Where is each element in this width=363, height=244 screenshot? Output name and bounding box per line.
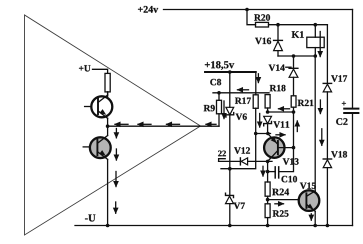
current arrow beside feed [257, 74, 259, 83]
wire to V11 bottom [256, 133, 271, 135]
resistor R9 [218, 93, 220, 101]
base current arrow [275, 203, 284, 205]
label V11 [273, 121, 289, 127]
wire lower tap [221, 108, 256, 168]
current arrow above [279, 108, 290, 110]
diode V12 [239, 158, 241, 165]
wire R18-R21 bottoms [268, 111, 294, 113]
right edge column with C2 [352, 10, 354, 109]
current arrow [321, 129, 323, 146]
label R17 [235, 98, 251, 104]
op-amp output wire to R9 [108, 125, 219, 127]
label R9 [204, 105, 215, 111]
current arrow [115, 123, 128, 125]
current arrow [115, 129, 117, 138]
diode V18 [323, 158, 331, 160]
label 22 [218, 151, 226, 157]
label C10 [282, 176, 298, 182]
current arrow [319, 100, 321, 114]
current arrow up beside R21 column [296, 121, 298, 132]
V15 emitter to rail [314, 211, 316, 225]
capacitor 22 [219, 159, 226, 162]
resistor R17 [253, 95, 258, 109]
wire [247, 10, 256, 25]
label V14 [269, 65, 285, 71]
+18,5v rail [205, 71, 256, 73]
resistor (collector load) [105, 73, 110, 92]
node R18 bottom [266, 110, 270, 114]
V14 label tie line [286, 66, 291, 68]
current arrow left of R24 [262, 166, 264, 176]
V15 base wire [268, 199, 307, 201]
transistor T2 (lower, filled) [90, 137, 111, 158]
diode V17 [323, 82, 331, 84]
label +18,5v [205, 61, 234, 70]
resistor R20 [256, 22, 269, 27]
capacitor C10 [274, 167, 276, 178]
bottom rail [75, 225, 353, 227]
node at R20 tap [245, 8, 249, 12]
label +U [79, 65, 91, 71]
transistor T1 (upper, open) [91, 96, 112, 117]
wire through V12 [219, 160, 272, 162]
current arrow [115, 149, 117, 160]
op-amp triangle [25, 15, 201, 235]
label V15 [300, 183, 316, 189]
base current arrow [276, 134, 285, 136]
V13 base column down to C10 [279, 112, 294, 172]
current arrow beside R9 [223, 101, 225, 119]
label R18 [270, 85, 286, 91]
V15 collector column up to K1 node [314, 56, 316, 191]
current arrow through K1 [319, 32, 321, 57]
+U feed [93, 69, 108, 73]
capacitor C8 lower wire [213, 92, 269, 94]
label R24 [272, 189, 289, 196]
label V16 [255, 38, 271, 44]
diode V14 [293, 56, 295, 68]
label C2 [336, 118, 347, 125]
wire [269, 24, 328, 26]
label V13 [283, 158, 299, 164]
capacitor C2 [344, 108, 358, 110]
relay K1 [314, 25, 316, 38]
resistor R24 [265, 182, 270, 196]
transistor V15 [299, 190, 320, 211]
R24 column [267, 161, 269, 182]
resistor R21 [291, 96, 296, 107]
diode V16 [277, 25, 279, 41]
resistor R25 [265, 204, 270, 218]
+24v supply rail [164, 9, 353, 11]
label V6 [236, 114, 247, 120]
label V17 [331, 75, 347, 81]
label C8 [210, 79, 221, 85]
current arrow beside R17 [259, 114, 261, 128]
node V16 branch [276, 23, 280, 27]
current arrow below V15 [310, 214, 312, 220]
wire V16/K1 bottom node [278, 55, 315, 57]
label V12 [234, 147, 250, 153]
label V18 [331, 151, 347, 157]
label R20 [254, 14, 270, 20]
resistor R18 [265, 95, 270, 108]
current arrow above C8 wire [238, 89, 249, 91]
current arrow [167, 123, 180, 125]
label + (C2) [342, 101, 346, 105]
current arrow [206, 123, 216, 125]
transistor V13 [264, 137, 284, 157]
label K1 [292, 31, 304, 38]
label V7 [234, 203, 245, 209]
current arrow [138, 123, 151, 125]
node K1 branch [314, 23, 318, 27]
node V13 emitter [266, 160, 270, 164]
node [106, 124, 110, 128]
zener V7 [226, 193, 234, 197]
V17/V18 column [326, 25, 328, 83]
label R21 [298, 100, 314, 106]
node on R17 column [254, 132, 258, 136]
label +24v [138, 6, 158, 13]
zener V11 [264, 116, 272, 123]
current arrow [115, 202, 117, 213]
zener V6 [229, 72, 231, 107]
current arrow [115, 172, 117, 187]
label R25 [273, 210, 289, 216]
label -U [85, 215, 95, 222]
